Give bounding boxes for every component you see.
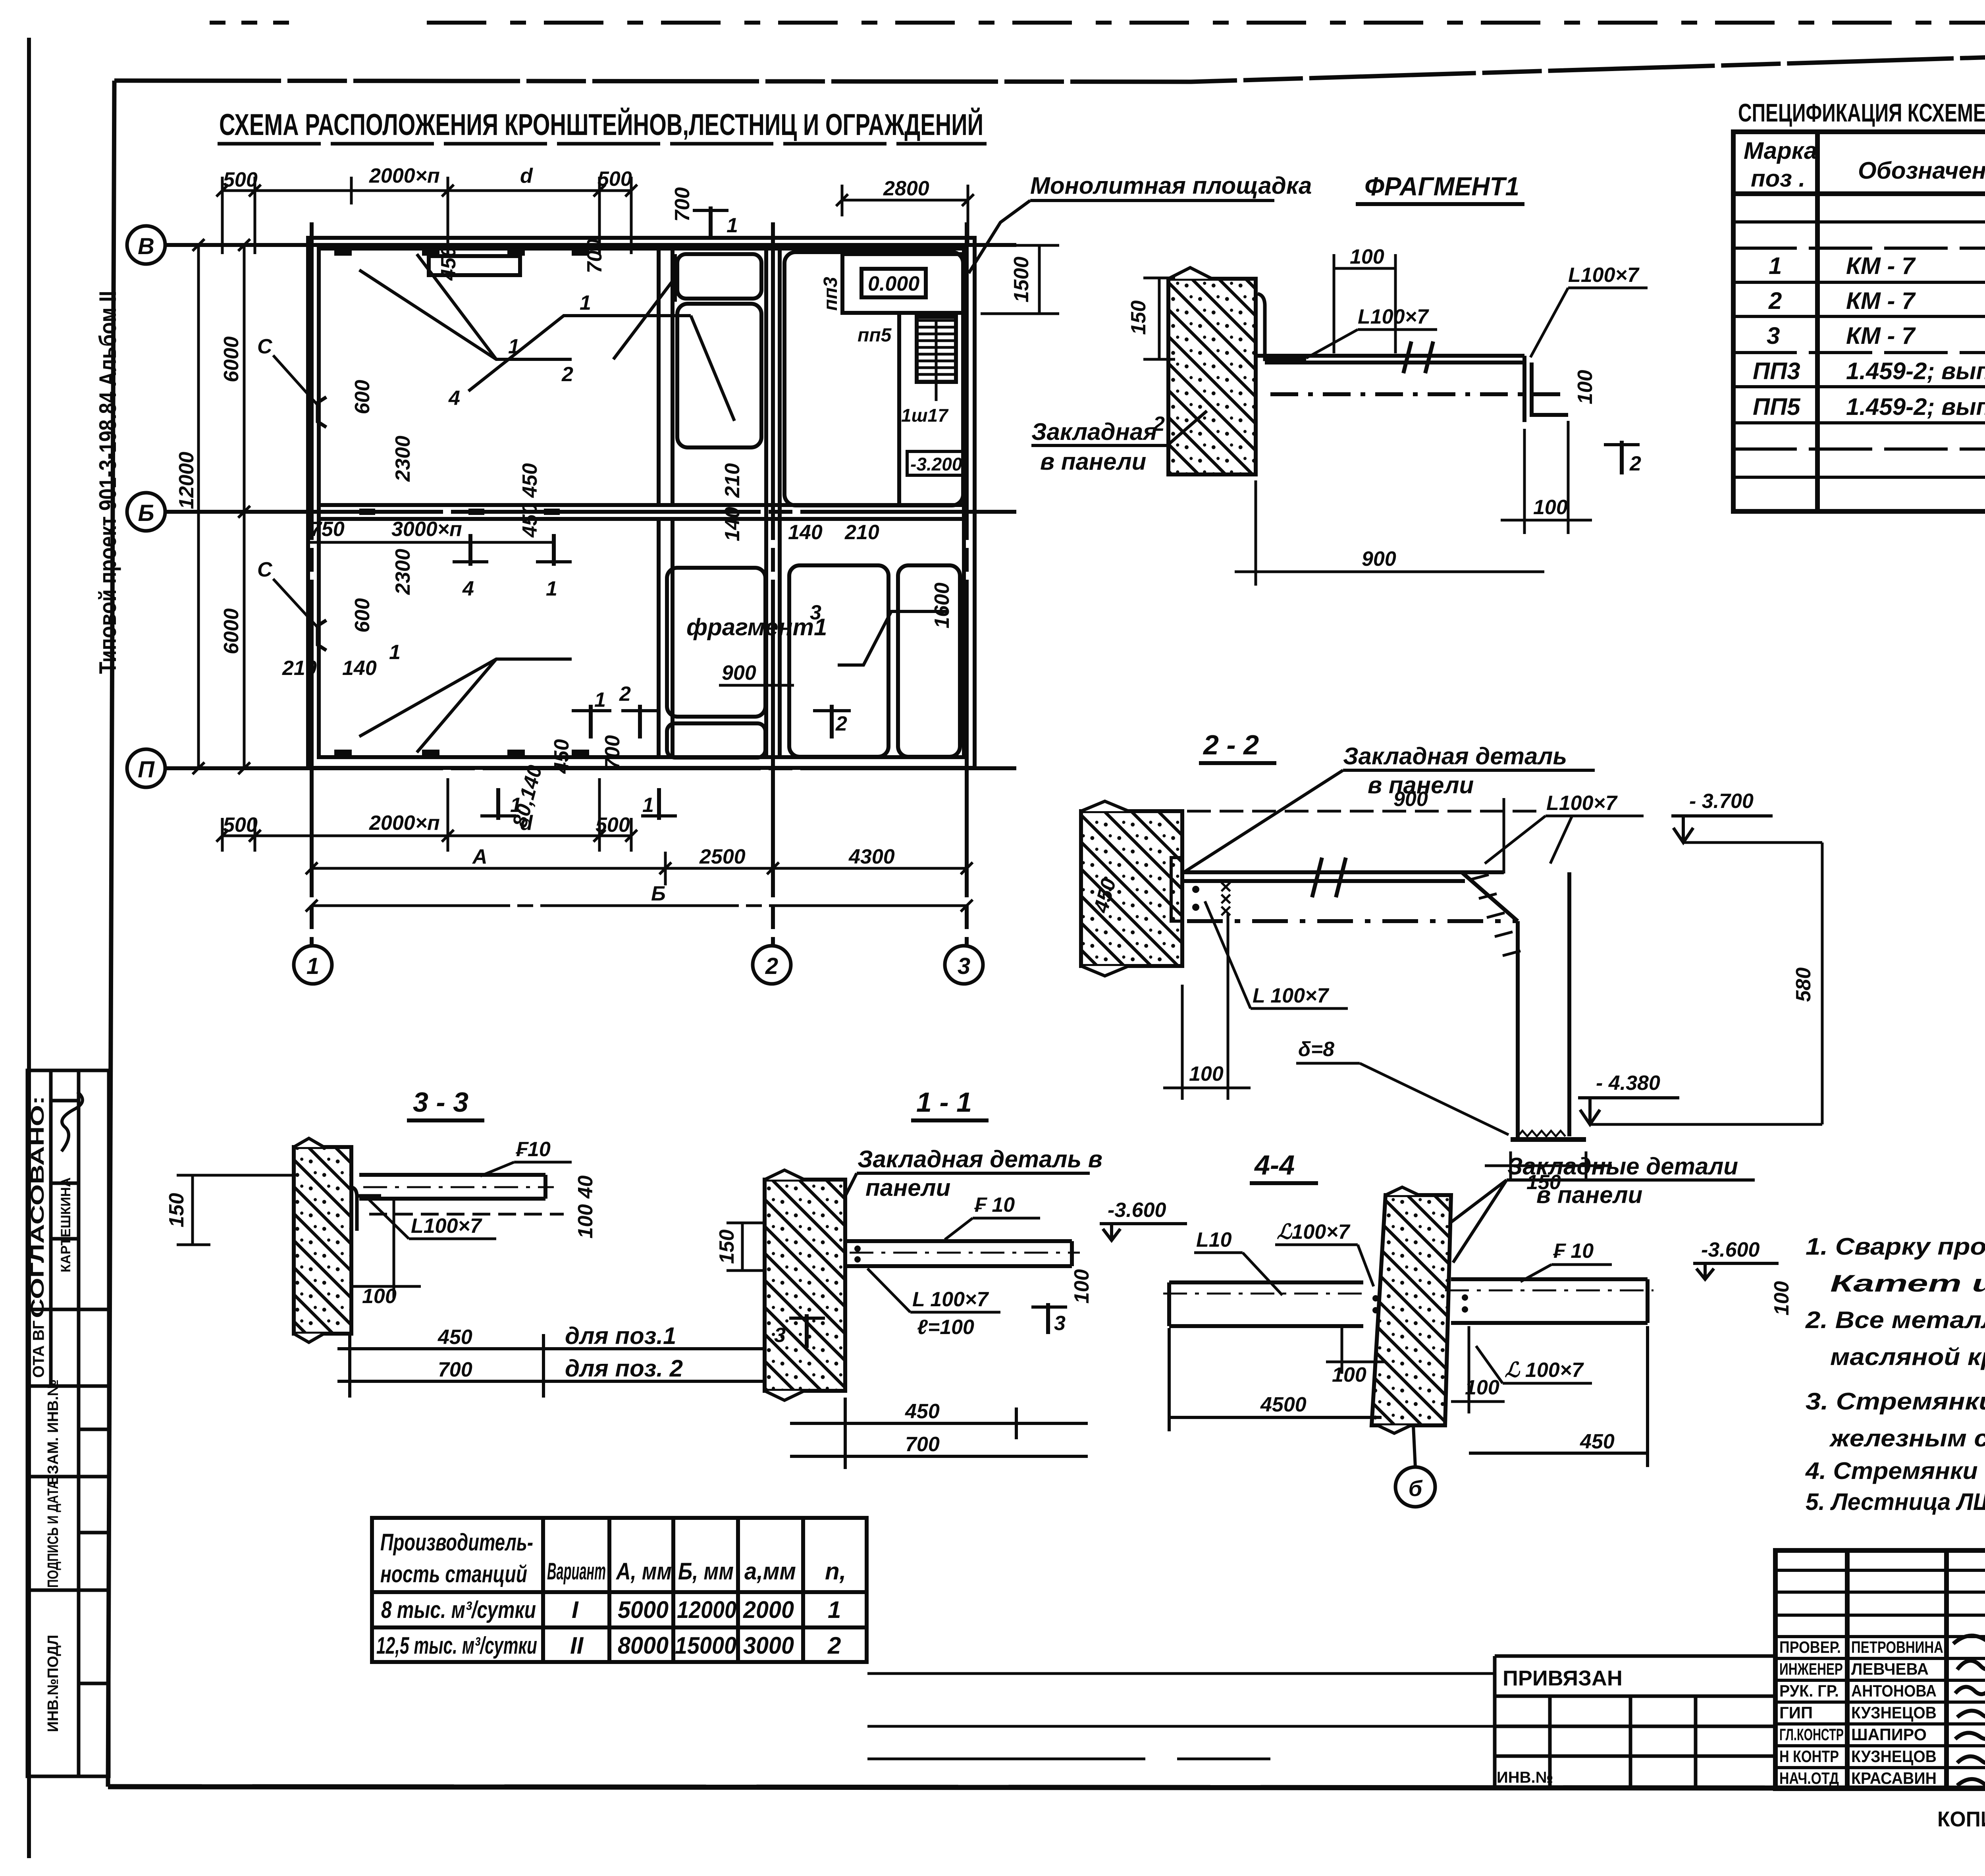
svg-text:ℒ 100×7: ℒ 100×7 bbox=[1505, 1359, 1584, 1382]
svg-text:100: 100 bbox=[1574, 370, 1597, 405]
svg-text:500: 500 bbox=[223, 814, 258, 837]
svg-text:СОГЛАСОВАНО:: СОГЛАСОВАНО: bbox=[27, 1096, 48, 1318]
3-3 dim 700 line bbox=[337, 1380, 766, 1383]
svg-text:d: d bbox=[520, 164, 533, 187]
monolithic platform outline bbox=[842, 254, 963, 313]
3-3 dim 150 rotated bbox=[177, 1175, 294, 1245]
3-3 dim 100 bbox=[351, 1200, 421, 1298]
svg-text:П: П bbox=[138, 757, 155, 783]
4-4 axis circle б bbox=[1395, 1425, 1435, 1507]
svg-text:750: 750 bbox=[310, 518, 345, 541]
1-1 section mark 3 right bbox=[1031, 1303, 1067, 1335]
svg-text:580: 580 bbox=[1792, 968, 1815, 1002]
svg-text:140: 140 bbox=[721, 507, 744, 542]
fragment concrete panel bbox=[1168, 268, 1256, 474]
signature labels bbox=[1779, 1638, 1943, 1787]
2-2 label L100x7 left bbox=[1205, 901, 1348, 1008]
stair arrow line bbox=[935, 322, 938, 401]
stair flight box bbox=[917, 317, 956, 382]
4-4 right member bbox=[1445, 1279, 1654, 1323]
svg-text:РУК. ГР.: РУК. ГР. bbox=[1779, 1681, 1839, 1700]
svg-text:Вариант: Вариант bbox=[547, 1558, 606, 1585]
svg-text:450: 450 bbox=[1580, 1430, 1615, 1453]
bottom dim chain row1 bbox=[222, 778, 967, 906]
svg-text:ПП5: ПП5 bbox=[1753, 393, 1801, 420]
corridor wall upper half line b bbox=[671, 249, 675, 505]
svg-text:3000×п: 3000×п bbox=[391, 518, 462, 541]
right side dim 1500 bbox=[1038, 245, 1041, 314]
svg-text:ИНВ.№ПОДЛ: ИНВ.№ПОДЛ bbox=[45, 1635, 62, 1732]
dim 900 inner bbox=[719, 661, 794, 685]
1-1 elevation -3.600 bbox=[1100, 1199, 1187, 1240]
svg-text:КУЗНЕЦОВ: КУЗНЕЦОВ bbox=[1851, 1703, 1937, 1722]
svg-text:2. Все металлические констру: 2. Все металлические конструкции в осях … bbox=[1805, 1307, 1985, 1333]
axis line 1 bbox=[310, 222, 314, 946]
svg-text:Б: Б bbox=[138, 500, 154, 526]
svg-text:L10: L10 bbox=[1196, 1228, 1232, 1251]
mid dim line 3000xп bbox=[310, 541, 552, 544]
2-2 base plate bbox=[1511, 1137, 1586, 1142]
signature rows lines bbox=[1775, 1570, 1985, 1768]
svg-text:L 100×7: L 100×7 bbox=[912, 1288, 989, 1311]
svg-text:2: 2 bbox=[827, 1632, 841, 1659]
svg-text:Катет шва - 6 мм.: Катет шва - 6 мм. bbox=[1830, 1270, 1985, 1297]
svg-text:100: 100 bbox=[1465, 1376, 1499, 1399]
fragment dim 150 rotated bbox=[1143, 278, 1175, 359]
svg-text:2: 2 bbox=[1629, 452, 1641, 475]
svg-text:210: 210 bbox=[721, 463, 744, 498]
svg-text:пп3: пп3 bbox=[820, 277, 841, 311]
svg-text:500: 500 bbox=[597, 168, 632, 191]
4-4 dim 100 below right bbox=[1451, 1326, 1505, 1413]
svg-text:500: 500 bbox=[223, 168, 258, 191]
4-4 label Закладные детали в панели bbox=[1429, 1153, 1755, 1263]
svg-text:100: 100 bbox=[1533, 496, 1568, 519]
axis line П bbox=[165, 766, 1016, 770]
svg-text:3: 3 bbox=[774, 1324, 786, 1347]
svg-text:Марка: Марка bbox=[1744, 137, 1817, 164]
fragment section mark 2 bbox=[1604, 441, 1641, 475]
1-1 embedded plate bolts bbox=[854, 1246, 861, 1263]
1-1 label L100x7 l=100 bbox=[867, 1269, 1000, 1339]
leader 4-1 mid bbox=[448, 291, 734, 421]
axis circle Б bbox=[127, 493, 165, 531]
svg-text:1: 1 bbox=[580, 291, 591, 314]
svg-text:12000: 12000 bbox=[175, 452, 198, 509]
svg-text:₣ 10: ₣ 10 bbox=[1553, 1240, 1594, 1263]
svg-text:0.000: 0.000 bbox=[868, 272, 919, 295]
1-1 label C10 bbox=[945, 1193, 1040, 1240]
svg-text:150: 150 bbox=[165, 1193, 188, 1228]
room top large bbox=[677, 304, 761, 447]
svg-text:450: 450 bbox=[437, 246, 460, 281]
svg-text:пп5: пп5 bbox=[858, 325, 892, 346]
svg-text:железным суриком ГОСТ 8135-7: железным суриком ГОСТ 8135-74 на олифе Г… bbox=[1829, 1425, 1985, 1452]
svg-text:L100×7: L100×7 bbox=[1358, 305, 1429, 328]
svg-text:Монолитная площадка: Монолитная площадка bbox=[1030, 172, 1312, 199]
middle wall Б upper line bbox=[319, 503, 964, 507]
svg-text:ИНЖЕНЕР: ИНЖЕНЕР bbox=[1779, 1660, 1843, 1678]
svg-text:₣ 10: ₣ 10 bbox=[974, 1193, 1015, 1217]
svg-text:АНТОНОВА: АНТОНОВА bbox=[1851, 1681, 1937, 1700]
signature squiggles bbox=[1953, 1626, 1985, 1787]
svg-text:б: б bbox=[1409, 1476, 1423, 1501]
svg-text:-3.200: -3.200 bbox=[910, 454, 962, 474]
svg-text:600: 600 bbox=[351, 380, 374, 415]
axis2 wall line b bbox=[778, 249, 782, 757]
svg-text:1: 1 bbox=[642, 794, 654, 817]
svg-text:700: 700 bbox=[905, 1433, 940, 1456]
4-4 label C10 right bbox=[1521, 1240, 1612, 1282]
4-4 dim 450 bbox=[1469, 1326, 1648, 1467]
section mark 1 bottom-mid bbox=[572, 688, 611, 738]
2-2 embedded plate bbox=[1171, 858, 1182, 921]
svg-text:4: 4 bbox=[448, 387, 460, 410]
fragment label L100x7 right bbox=[1530, 264, 1648, 357]
svg-text:КМ - 7: КМ - 7 bbox=[1846, 287, 1916, 314]
svg-text:ℓ=100: ℓ=100 bbox=[917, 1316, 974, 1339]
svg-text:Типовой проект 901-3-198.84: Типовой проект 901-3-198.84 Альбом II bbox=[94, 291, 121, 674]
4-4 dim 100 below left bbox=[1326, 1328, 1386, 1374]
spec row 3 bbox=[1767, 322, 1985, 349]
corridor wall lower half line a bbox=[657, 519, 661, 757]
2-2 bracket beam bbox=[1182, 858, 1586, 1139]
spec row ПП5 bbox=[1753, 393, 1985, 420]
fragment rail right end bbox=[1524, 356, 1568, 422]
sheet left edge line bbox=[27, 38, 31, 1858]
svg-text:- 3.700: - 3.700 bbox=[1689, 790, 1754, 813]
svg-text:900: 900 bbox=[1393, 788, 1428, 811]
svg-text:а,мм: а,мм bbox=[744, 1558, 796, 1585]
svg-text:КОПИРОВАЛ: КОРШУНОВА: КОПИРОВАЛ: КОРШУНОВА bbox=[1937, 1807, 1985, 1831]
2-2 beam break marks bbox=[1312, 858, 1346, 897]
svg-text:2300: 2300 bbox=[391, 436, 414, 482]
svg-text:СПЕЦИФИКАЦИЯ КСХЕМЕ РАСПОЛОЖЕН: СПЕЦИФИКАЦИЯ КСХЕМЕ РАСПОЛОЖЕНИЯ КРОНШТЕ… bbox=[1738, 98, 1985, 127]
3-3 label C10 bbox=[480, 1138, 572, 1176]
svg-text:ФРАГМЕНТ1: ФРАГМЕНТ1 bbox=[1364, 172, 1519, 201]
svg-text:100: 100 bbox=[1350, 245, 1384, 268]
svg-text:1500: 1500 bbox=[1010, 256, 1033, 303]
fragment callout 3 bbox=[810, 601, 947, 665]
svg-text:поз .: поз . bbox=[1751, 165, 1805, 192]
sheet top short dashes bbox=[210, 21, 295, 25]
svg-text:ПП3: ПП3 bbox=[1753, 358, 1800, 384]
bottom dim row2 А 2500 4300 bbox=[312, 867, 967, 870]
3-3 angle bracket bbox=[351, 1187, 381, 1231]
axis circle 3 bbox=[945, 946, 983, 984]
svg-text:2300: 2300 bbox=[391, 549, 414, 595]
svg-text:в панели: в панели bbox=[1536, 1182, 1642, 1208]
section 1-1 title bbox=[911, 1087, 989, 1120]
svg-text:150: 150 bbox=[1127, 301, 1150, 335]
room bottom right B bbox=[898, 565, 960, 757]
svg-text:КМ - 7: КМ - 7 bbox=[1846, 253, 1916, 279]
1-1 channel member bbox=[845, 1241, 1080, 1266]
svg-text:ШАПИРО: ШАПИРО bbox=[1851, 1725, 1927, 1744]
1-1 section mark 3 left bbox=[774, 1314, 825, 1348]
svg-text:900: 900 bbox=[722, 661, 756, 684]
fragment label Закладная 2 в панели bbox=[1031, 411, 1207, 475]
inner wall line rectangle bbox=[319, 249, 964, 757]
svg-text:4-4: 4-4 bbox=[1254, 1149, 1295, 1180]
svg-text:140: 140 bbox=[342, 657, 377, 680]
svg-text:450: 450 bbox=[905, 1400, 940, 1423]
elevation -3.200 box bbox=[907, 451, 966, 475]
svg-text:100 40: 100 40 bbox=[574, 1175, 597, 1238]
variants table bbox=[372, 1518, 867, 1662]
svg-text:Закладная деталь: Закладная деталь bbox=[1343, 743, 1567, 769]
svg-text:1 - 1: 1 - 1 bbox=[916, 1087, 972, 1118]
svg-text:ПРИВЯЗАН: ПРИВЯЗАН bbox=[1503, 1666, 1623, 1690]
svg-text:L100×7: L100×7 bbox=[411, 1215, 482, 1238]
svg-text:3. Стремянки и кронштейны в: 3. Стремянки и кронштейны в осях 1-2 окр… bbox=[1806, 1388, 1985, 1415]
frame bottom line bbox=[108, 1787, 1985, 1789]
svg-text:I: I bbox=[572, 1596, 579, 1623]
svg-text:- 4.380: - 4.380 bbox=[1596, 1072, 1660, 1095]
leader 1 bottom-left brackets bbox=[359, 641, 572, 752]
svg-text:КМ - 7: КМ - 7 bbox=[1846, 322, 1916, 349]
svg-text:100: 100 bbox=[362, 1285, 397, 1308]
axis circle П bbox=[127, 749, 165, 787]
svg-text:масляной краской ГОСТ 695-77: масляной краской ГОСТ 695-77 за 2раза. bbox=[1830, 1344, 1985, 1370]
svg-text:100: 100 bbox=[1189, 1062, 1224, 1085]
4-4 label L100x7 top bbox=[1275, 1220, 1374, 1286]
svg-text:для поз.1: для поз.1 bbox=[565, 1323, 676, 1349]
svg-text:2: 2 bbox=[765, 953, 778, 979]
3-3 channel member bbox=[359, 1175, 564, 1214]
spec table grid bbox=[1733, 132, 1985, 511]
svg-text:100: 100 bbox=[1770, 1281, 1793, 1316]
3-3 dim 450 line bbox=[337, 1334, 766, 1398]
svg-text:450: 450 bbox=[518, 503, 542, 538]
svg-text:СХЕМА РАСПОЛОЖЕНИЯ КРОНШТЕЙНОВ: СХЕМА РАСПОЛОЖЕНИЯ КРОНШТЕЙНОВ,ЛЕСТНИЦ И… bbox=[219, 108, 983, 142]
svg-text:ℒ100×7: ℒ100×7 bbox=[1277, 1220, 1351, 1244]
2-2 vertical post bbox=[1516, 921, 1520, 1139]
svg-text:II: II bbox=[570, 1632, 584, 1659]
middle wall Б lower line bbox=[319, 517, 964, 521]
svg-text:3: 3 bbox=[1054, 1312, 1066, 1335]
svg-text:ГИП: ГИП bbox=[1779, 1703, 1813, 1722]
svg-text:450: 450 bbox=[550, 739, 573, 774]
2-2 concrete panel bbox=[1081, 801, 1182, 976]
svg-text:2 - 2: 2 - 2 bbox=[1203, 729, 1259, 760]
svg-text:НАЧ.ОТД: НАЧ.ОТД bbox=[1779, 1769, 1839, 1787]
svg-text:2800: 2800 bbox=[883, 177, 929, 200]
svg-text:210: 210 bbox=[282, 657, 317, 680]
fragment rail centerline dashed bbox=[1270, 392, 1568, 396]
room top small bbox=[677, 254, 761, 299]
fragment rail break marks bbox=[1403, 341, 1433, 373]
svg-text:1.459-2; вып.2: 1.459-2; вып.2 bbox=[1846, 358, 1985, 384]
4-4 bolts bbox=[1372, 1294, 1468, 1313]
svg-text:700: 700 bbox=[601, 735, 624, 770]
svg-text:1. Сварку производить электро: 1. Сварку производить электродами Э42 ГО… bbox=[1806, 1233, 1985, 1260]
platform edge vertical line bbox=[897, 313, 901, 503]
frame top line bbox=[114, 39, 1985, 82]
svg-text:Обозначение: Обозначение bbox=[1858, 157, 1985, 184]
2-2 label delta8 bbox=[1296, 1038, 1509, 1135]
svg-text:₣10: ₣10 bbox=[515, 1138, 551, 1161]
section mark 2 upper bbox=[561, 254, 675, 386]
svg-text:8000: 8000 bbox=[618, 1632, 669, 1659]
svg-text:1: 1 bbox=[306, 953, 319, 979]
svg-text:2500: 2500 bbox=[699, 845, 746, 868]
svg-text:L 100×7: L 100×7 bbox=[1253, 984, 1329, 1007]
svg-text:4: 4 bbox=[462, 577, 474, 600]
svg-text:Закладная деталь в: Закладная деталь в bbox=[858, 1146, 1102, 1172]
svg-text:Закладная: Закладная bbox=[1031, 418, 1157, 445]
spec row 1 bbox=[1769, 253, 1985, 279]
svg-text:500: 500 bbox=[595, 814, 630, 837]
svg-text:1: 1 bbox=[546, 577, 557, 600]
svg-text:C: C bbox=[257, 558, 273, 581]
bracket mark C upper bbox=[257, 335, 326, 427]
svg-text:12000: 12000 bbox=[677, 1596, 736, 1623]
svg-text:-3.600: -3.600 bbox=[1108, 1199, 1166, 1222]
section marks 4 and 1 lower bbox=[453, 534, 488, 600]
corridor wall upper half line a bbox=[657, 249, 661, 505]
fragment dim 100 top bbox=[1334, 254, 1395, 353]
title underline bbox=[218, 142, 987, 146]
frame left line bbox=[108, 81, 114, 1787]
2-2 weld hatch on diagonal bbox=[1471, 875, 1521, 956]
section 3-3 title bbox=[407, 1087, 484, 1120]
svg-text:450: 450 bbox=[518, 463, 542, 498]
spec row 2 bbox=[1768, 287, 1985, 314]
4-4 concrete column bbox=[1372, 1187, 1451, 1433]
svg-text:100: 100 bbox=[1332, 1363, 1366, 1386]
svg-text:1: 1 bbox=[1769, 253, 1782, 279]
svg-text:Производитель-: Производитель- bbox=[380, 1529, 533, 1556]
svg-text:5. Лестница ЛШ17 выбрана на: 5. Лестница ЛШ17 выбрана на листе КМ-6. bbox=[1806, 1488, 1985, 1515]
outer wall rectangle bbox=[308, 238, 975, 768]
spec row ПП3 bbox=[1753, 358, 1985, 384]
svg-text:КУЗНЕЦОВ: КУЗНЕЦОВ bbox=[1851, 1747, 1937, 1766]
axis line 2 bbox=[771, 222, 775, 946]
left form lines bbox=[867, 1672, 1495, 1675]
svg-text:3: 3 bbox=[810, 601, 821, 624]
3-3 concrete panel bbox=[294, 1138, 351, 1342]
svg-text:3 - 3: 3 - 3 bbox=[413, 1087, 468, 1118]
svg-text:2: 2 bbox=[1768, 287, 1782, 314]
svg-text:δ=8: δ=8 bbox=[1298, 1038, 1334, 1061]
svg-text:1: 1 bbox=[389, 641, 401, 664]
left vertical dim line 12000 bbox=[175, 245, 270, 768]
2-2 base weld marks bbox=[1518, 1131, 1565, 1136]
svg-text:6000: 6000 bbox=[220, 336, 243, 382]
svg-text:2: 2 bbox=[619, 683, 631, 706]
duct box below top wall bbox=[429, 256, 520, 275]
svg-text:панели: панели bbox=[865, 1174, 950, 1201]
svg-text:Б: Б bbox=[651, 882, 666, 905]
svg-text:140: 140 bbox=[788, 521, 823, 544]
svg-text:4500: 4500 bbox=[1260, 1393, 1307, 1416]
corridor wall lower half line b bbox=[671, 519, 675, 757]
2-2 elevation -4.380 bbox=[1578, 1072, 1822, 1124]
svg-text:3: 3 bbox=[958, 953, 970, 979]
svg-text:L100×7: L100×7 bbox=[1568, 264, 1640, 287]
svg-text:450: 450 bbox=[437, 1326, 472, 1349]
fragment dim 900 bbox=[1235, 480, 1544, 586]
wall anchor ticks top wall bbox=[334, 249, 589, 756]
svg-text:-3.600: -3.600 bbox=[1701, 1238, 1760, 1261]
plan top dimension 2800 bbox=[842, 199, 968, 202]
svg-text:А: А bbox=[472, 845, 488, 868]
svg-text:Закладные детали: Закладные детали bbox=[1507, 1153, 1738, 1180]
svg-text:для поз. 2: для поз. 2 bbox=[565, 1355, 683, 1382]
fragment label L100x7 left bbox=[1306, 305, 1437, 358]
section mark 2 bottom-mid bbox=[619, 683, 659, 738]
svg-text:А, мм: А, мм bbox=[615, 1558, 672, 1585]
svg-text:В: В bbox=[138, 233, 154, 259]
fragment angle vertical flange bbox=[1258, 294, 1306, 359]
fragment dim 100 bottom bbox=[1501, 421, 1592, 534]
svg-text:ПРОВЕР.: ПРОВЕР. bbox=[1779, 1638, 1841, 1656]
svg-text:2000×п: 2000×п bbox=[369, 812, 440, 835]
svg-text:Б, мм: Б, мм bbox=[678, 1558, 734, 1585]
svg-text:900: 900 bbox=[1362, 548, 1396, 571]
stair shaft dashdot edge bbox=[916, 314, 920, 378]
3-3 label L100x7 bbox=[369, 1200, 496, 1239]
svg-text:2: 2 bbox=[561, 363, 573, 386]
section mark 1 below plan left bbox=[480, 788, 522, 820]
axis circle 1 bbox=[294, 946, 332, 984]
axis2 wall line a bbox=[764, 249, 768, 757]
svg-text:700: 700 bbox=[671, 187, 694, 222]
4-4 left member bbox=[1163, 1282, 1370, 1326]
svg-text:ИНВ.№: ИНВ.№ bbox=[1497, 1769, 1553, 1786]
axis circle В bbox=[127, 226, 165, 264]
svg-text:3000: 3000 bbox=[743, 1632, 794, 1659]
section mark 1 top bbox=[693, 206, 738, 238]
1-1 label Закладная деталь в панели bbox=[830, 1146, 1102, 1227]
section mark 2 bottom-right bbox=[813, 705, 851, 738]
svg-text:×××: ××× bbox=[1214, 881, 1237, 917]
4-4 label L10 bbox=[1194, 1228, 1282, 1295]
svg-text:4. Стремянки С выбраны на: 4. Стремянки С выбраны на листе КЖ-3 . bbox=[1805, 1458, 1985, 1484]
room top right large bbox=[784, 252, 963, 505]
axis line Б bbox=[165, 510, 1016, 514]
leader 1 top-left brackets bbox=[359, 254, 572, 359]
svg-text:n,: n, bbox=[825, 1558, 846, 1585]
fragment rail top chord bbox=[1256, 341, 1568, 422]
elevation 0.000 box bbox=[861, 269, 926, 297]
1-1 dim 700 bbox=[790, 1455, 1088, 1458]
plan top dimension line left chain bbox=[222, 177, 1059, 314]
2-2 dim 580 rotated bbox=[1792, 843, 1822, 1124]
svg-text:2: 2 bbox=[835, 712, 847, 735]
sidebar stamp boxes bbox=[27, 1070, 109, 1776]
svg-text:КРАСАВИН: КРАСАВИН bbox=[1851, 1769, 1937, 1787]
svg-text:ЛЕВЧЕВА: ЛЕВЧЕВА bbox=[1851, 1660, 1929, 1678]
1-1 concrete panel bbox=[765, 1170, 845, 1400]
svg-text:фрагмент1: фрагмент1 bbox=[686, 614, 827, 640]
1-1 dim 450 bbox=[790, 1398, 1088, 1469]
1-1 dim 150 rotated left bbox=[727, 1223, 765, 1271]
svg-text:1: 1 bbox=[594, 688, 606, 711]
dimension slash ticks bbox=[193, 185, 974, 912]
fragment title bbox=[1356, 172, 1524, 204]
2-2 corner diagonal bbox=[1462, 872, 1518, 921]
2-2 dim 900 bbox=[1187, 798, 1544, 873]
svg-text:2000: 2000 bbox=[743, 1596, 794, 1623]
svg-text:1: 1 bbox=[828, 1596, 841, 1623]
svg-text:3: 3 bbox=[1767, 322, 1780, 349]
svg-text:4300: 4300 bbox=[848, 845, 895, 868]
4-4 elevation -3.600 right bbox=[1693, 1238, 1779, 1279]
bottom dim row3 Б bbox=[312, 904, 967, 907]
svg-text:100: 100 bbox=[1070, 1269, 1093, 1304]
